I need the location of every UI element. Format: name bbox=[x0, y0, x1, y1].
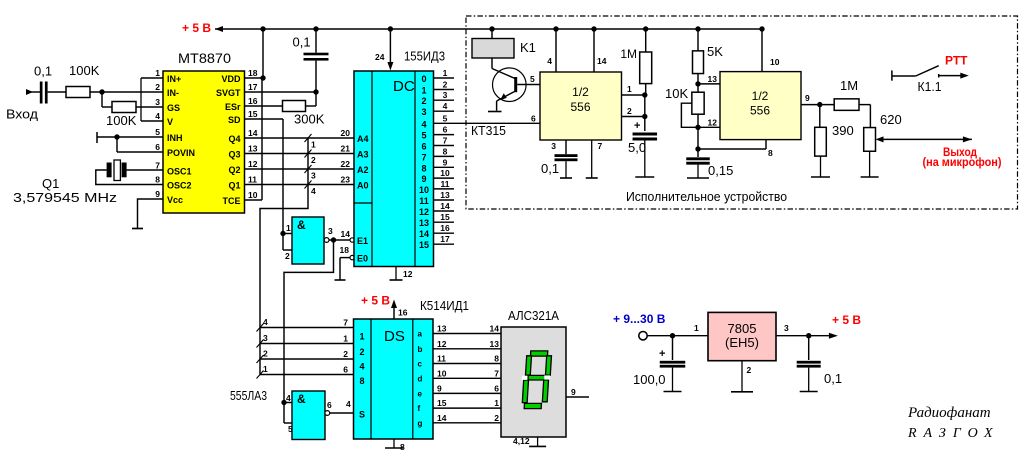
node pin1 1M bbox=[642, 92, 647, 97]
dashed boundary Исполнительное устройство bbox=[466, 16, 1018, 209]
svg-text:9: 9 bbox=[571, 387, 576, 397]
svg-text:9: 9 bbox=[805, 93, 810, 103]
svg-text:Vcc: Vcc bbox=[167, 195, 183, 205]
wire 556a pin1 bbox=[622, 84, 645, 95]
svg-text:4: 4 bbox=[346, 399, 351, 409]
svg-text:DC: DC bbox=[393, 78, 415, 95]
label 18 E0 pin bbox=[340, 245, 350, 255]
node 5K rail bbox=[695, 26, 700, 31]
ground emitter bbox=[488, 111, 502, 113]
wire input to 7805 bbox=[647, 323, 708, 336]
bus taps 1-4 DC side bbox=[305, 134, 317, 196]
output tap arrows bbox=[876, 136, 972, 142]
svg-text:6: 6 bbox=[443, 125, 448, 135]
svg-text:10: 10 bbox=[419, 185, 429, 195]
IC 155ИД3 body bbox=[354, 71, 434, 267]
capacitor 0,1 output bbox=[797, 336, 821, 392]
svg-text:А0: А0 bbox=[357, 181, 369, 191]
label 3,579545 MHz bbox=[13, 190, 117, 205]
label 0,1 556a bbox=[541, 161, 559, 176]
svg-text:Q4: Q4 bbox=[228, 134, 240, 144]
capacitor C 0,1 input bbox=[40, 82, 66, 104]
svg-text:5: 5 bbox=[155, 127, 160, 137]
svg-text:V: V bbox=[167, 117, 173, 127]
wire SD to gate inputs bbox=[283, 234, 292, 251]
svg-text:7: 7 bbox=[421, 152, 426, 162]
svg-text:А2: А2 bbox=[357, 165, 369, 175]
wire E0 to ground bbox=[340, 258, 350, 280]
svg-text:2: 2 bbox=[494, 413, 499, 423]
node 556a pin14 rail bbox=[591, 26, 596, 31]
label 7805 bbox=[725, 321, 759, 350]
svg-text:3: 3 bbox=[784, 323, 789, 333]
wire SD bbox=[245, 119, 284, 234]
svg-text:6: 6 bbox=[494, 383, 499, 393]
resistor 390 bbox=[811, 105, 830, 177]
transistor VT1 КТ315 bbox=[492, 58, 526, 111]
svg-text:555ЛА3: 555ЛА3 bbox=[230, 388, 267, 403]
svg-text:12: 12 bbox=[403, 269, 413, 279]
E0 inversion circle bbox=[350, 255, 354, 259]
7805 pin2 ground bbox=[731, 361, 753, 392]
svg-text:4: 4 bbox=[155, 111, 160, 121]
node out cap bbox=[806, 333, 811, 338]
label 1/2 556 first bbox=[570, 85, 590, 114]
svg-text:0,1: 0,1 bbox=[34, 64, 52, 79]
svg-text:100,0: 100,0 bbox=[633, 372, 666, 387]
svg-text:7: 7 bbox=[494, 368, 499, 378]
556a pin14 to rail bbox=[594, 29, 607, 72]
gate1 output inversion circle bbox=[324, 238, 329, 243]
display ground pins 4,12 bbox=[513, 436, 546, 446]
svg-text:GS: GS bbox=[167, 103, 180, 113]
wire gate2 out to S bbox=[330, 399, 354, 413]
svg-text:13: 13 bbox=[248, 144, 258, 154]
signature RA3TOX bbox=[907, 426, 1000, 441]
wire pin12 to pin8 bbox=[698, 127, 773, 158]
svg-text:7: 7 bbox=[155, 161, 160, 171]
svg-text:4: 4 bbox=[421, 119, 426, 129]
svg-text:S: S bbox=[359, 410, 365, 420]
svg-text:11: 11 bbox=[419, 196, 429, 206]
svg-text:0,1: 0,1 bbox=[824, 371, 842, 386]
wire gate2 inputs bbox=[284, 403, 292, 424]
svg-text:13: 13 bbox=[490, 339, 500, 349]
capacitor 100,0 polarized bbox=[659, 336, 685, 392]
display pin 9 stub bbox=[566, 387, 589, 397]
label DC bbox=[393, 78, 415, 95]
svg-text:6: 6 bbox=[155, 142, 160, 152]
svg-text:2: 2 bbox=[343, 349, 348, 359]
svg-text:Исполнительное устройство: Исполнительное устройство bbox=[626, 189, 787, 204]
svg-text:(на микрофон): (на микрофон) bbox=[923, 157, 1002, 169]
input terminal arrow (Вход) bbox=[26, 89, 40, 95]
svg-text:3: 3 bbox=[311, 171, 316, 181]
svg-text:300K: 300K bbox=[294, 112, 325, 127]
relay K1 coil bbox=[472, 29, 514, 58]
crystal Q1 3,579545 MHz bbox=[96, 160, 163, 185]
DC ground pin 12 bbox=[390, 267, 413, 281]
node pin24 rail bbox=[388, 26, 393, 31]
svg-text:22: 22 bbox=[341, 159, 351, 169]
svg-text:5: 5 bbox=[421, 131, 426, 141]
svg-text:0: 0 bbox=[421, 74, 426, 84]
svg-text:a: a bbox=[418, 330, 423, 339]
ground E0 bbox=[335, 279, 346, 281]
556a pin4 to rail bbox=[547, 29, 556, 72]
svg-text:1/2: 1/2 bbox=[752, 89, 769, 103]
wire Vss to ground bbox=[138, 199, 164, 228]
label 0,1 output bbox=[824, 371, 842, 386]
gate1 pin labels bbox=[285, 223, 333, 261]
svg-text:4: 4 bbox=[311, 186, 316, 196]
svg-text:SVGT: SVGT bbox=[216, 88, 241, 98]
wire SVGT node bbox=[245, 91, 317, 93]
DS ground pin 8 bbox=[385, 439, 405, 452]
wires DS to display with pin numbers bbox=[433, 324, 501, 423]
svg-text:0,15: 0,15 bbox=[708, 163, 733, 178]
svg-text:12: 12 bbox=[419, 207, 429, 217]
label 5K bbox=[707, 44, 723, 59]
wire IN+ to V tie bbox=[141, 78, 163, 121]
svg-text:556: 556 bbox=[750, 104, 770, 118]
svg-text:13: 13 bbox=[419, 218, 429, 228]
wire input to IN- bbox=[90, 91, 164, 93]
svg-text:18: 18 bbox=[248, 68, 258, 78]
svg-text:2: 2 bbox=[263, 349, 268, 359]
node pin9 bbox=[817, 102, 822, 107]
svg-text:VDD: VDD bbox=[221, 74, 241, 84]
MT8870 right pin numbers bbox=[248, 68, 258, 200]
capacitor 0,1 supply MT8870 bbox=[304, 29, 329, 92]
display АЛС321А body bbox=[501, 327, 566, 437]
ground MT8870 bbox=[132, 228, 143, 230]
svg-text:2: 2 bbox=[627, 106, 632, 116]
DS input weight names bbox=[359, 332, 365, 420]
DC input names A4-A0 bbox=[357, 134, 369, 191]
svg-text:7: 7 bbox=[343, 318, 348, 328]
svg-text:2: 2 bbox=[311, 155, 316, 165]
svg-text:3: 3 bbox=[155, 97, 160, 107]
svg-text:Q3: Q3 bbox=[228, 150, 240, 160]
wire pin1 to pin2 node bbox=[644, 95, 646, 117]
MT8870 left pin names bbox=[167, 74, 195, 205]
node SD gate input bbox=[280, 231, 285, 236]
wire 7805 out bbox=[776, 323, 838, 339]
svg-text:1: 1 bbox=[155, 68, 160, 78]
label 100K R1 bbox=[69, 63, 100, 78]
svg-text:2: 2 bbox=[443, 80, 448, 90]
svg-text:SD: SD bbox=[228, 115, 241, 125]
svg-text:КТ315: КТ315 bbox=[471, 123, 506, 138]
svg-text:13: 13 bbox=[437, 324, 447, 334]
svg-text:12: 12 bbox=[437, 339, 447, 349]
svg-text:2: 2 bbox=[155, 82, 160, 92]
label Выход bbox=[943, 145, 977, 159]
svg-text:5: 5 bbox=[443, 113, 448, 123]
svg-text:10: 10 bbox=[770, 57, 780, 67]
svg-text:8: 8 bbox=[768, 148, 773, 158]
7-segment digit 8 bbox=[522, 351, 552, 409]
svg-text:6: 6 bbox=[531, 114, 536, 124]
wire base to pin5 bbox=[517, 74, 540, 85]
node E1 bbox=[331, 237, 336, 242]
svg-text:23: 23 bbox=[341, 175, 351, 185]
DS left pin numbers bbox=[343, 318, 348, 375]
label +5 В DS bbox=[361, 294, 390, 308]
label 300K bbox=[294, 112, 325, 127]
svg-text:b: b bbox=[418, 345, 423, 354]
svg-text:IN+: IN+ bbox=[167, 74, 181, 84]
svg-text:1М: 1М bbox=[620, 47, 637, 61]
svg-text:&: & bbox=[297, 218, 306, 232]
svg-text:E0: E0 bbox=[357, 254, 368, 264]
svg-text:6: 6 bbox=[327, 400, 332, 410]
label 0,1 supply cap bbox=[293, 35, 311, 50]
svg-text:17: 17 bbox=[440, 234, 450, 244]
svg-text:e: e bbox=[418, 389, 423, 398]
svg-text:155ИД3: 155ИД3 bbox=[404, 49, 445, 64]
svg-text:RАЗГОХ: RАЗГОХ bbox=[907, 426, 1000, 441]
gate2 output inversion circle bbox=[325, 411, 330, 416]
label 14 E1 pin bbox=[341, 229, 351, 239]
svg-text:f: f bbox=[418, 404, 421, 413]
signature Радиофанат bbox=[907, 405, 991, 421]
svg-text:1: 1 bbox=[421, 86, 426, 96]
svg-text:390: 390 bbox=[832, 123, 854, 138]
svg-text:8: 8 bbox=[494, 354, 499, 364]
node pin2 cap bbox=[642, 114, 647, 119]
svg-text:2: 2 bbox=[421, 96, 426, 106]
556a pin7 ground bbox=[586, 140, 603, 178]
svg-text:3: 3 bbox=[263, 333, 268, 343]
svg-text:5K: 5K bbox=[707, 44, 723, 59]
node 556a pin4 rail bbox=[553, 26, 558, 31]
svg-text:7: 7 bbox=[443, 136, 448, 146]
MT8870 left pin numbers bbox=[155, 68, 160, 199]
svg-text:20: 20 bbox=[341, 128, 351, 138]
node INH-POVIN junction bbox=[114, 134, 163, 152]
label 10K bbox=[665, 86, 688, 101]
IC MT8870 body bbox=[163, 71, 245, 213]
svg-text:14: 14 bbox=[419, 229, 429, 239]
wire gate1 out to E1 bbox=[329, 239, 350, 241]
label К1.1 bbox=[918, 80, 942, 94]
svg-text:10: 10 bbox=[437, 368, 447, 378]
svg-text:6: 6 bbox=[421, 142, 426, 152]
svg-text:3: 3 bbox=[328, 226, 333, 236]
gate DD1.1 & body bbox=[292, 217, 324, 264]
wire E1 to gate2 inputs bbox=[284, 240, 334, 403]
node 0,15 junction bbox=[695, 146, 700, 151]
label Вход bbox=[6, 107, 38, 122]
node 1M rail bbox=[643, 26, 648, 31]
bus fan-out to DS inputs bbox=[257, 317, 354, 379]
svg-text:+: + bbox=[659, 348, 665, 360]
gate2 pin labels bbox=[286, 393, 332, 434]
svg-text:15: 15 bbox=[419, 240, 429, 250]
svg-text:556: 556 bbox=[570, 100, 590, 114]
svg-text:14: 14 bbox=[437, 413, 447, 423]
svg-text:Вход: Вход bbox=[6, 107, 38, 122]
wire VDD to rail bbox=[245, 29, 264, 78]
svg-text:K1: K1 bbox=[520, 40, 536, 55]
node pin12 bbox=[695, 125, 700, 130]
node 100uF junction bbox=[670, 333, 675, 338]
svg-text:А4: А4 bbox=[357, 134, 369, 144]
svg-text:16: 16 bbox=[440, 223, 450, 233]
svg-text:14: 14 bbox=[490, 324, 500, 334]
svg-text:8: 8 bbox=[359, 376, 364, 386]
label Исполнительное устройство bbox=[626, 189, 787, 204]
svg-text:4: 4 bbox=[359, 362, 364, 372]
svg-text:5,0: 5,0 bbox=[628, 140, 646, 155]
DC enable names bbox=[357, 236, 368, 264]
svg-text:7: 7 bbox=[598, 141, 603, 151]
svg-text:1М: 1М bbox=[840, 78, 858, 93]
svg-text:А3: А3 bbox=[357, 150, 369, 160]
label +9...30 В bbox=[613, 312, 666, 326]
svg-text:1: 1 bbox=[286, 223, 291, 233]
DS segment output names a-g bbox=[418, 330, 423, 428]
capacitor 0,15 bbox=[686, 149, 710, 178]
label MT8870 bbox=[178, 50, 231, 66]
svg-text:DS: DS bbox=[384, 328, 405, 345]
svg-text:2: 2 bbox=[359, 347, 364, 357]
transistor emitter arrow bbox=[500, 93, 507, 100]
svg-text:8: 8 bbox=[155, 175, 160, 185]
bus wires Q4-Q1 to A inputs bbox=[245, 138, 355, 185]
svg-text:14: 14 bbox=[597, 56, 607, 66]
svg-text:16: 16 bbox=[398, 308, 408, 318]
svg-text:g: g bbox=[418, 419, 423, 428]
svg-text:13: 13 bbox=[708, 74, 718, 84]
svg-text:18: 18 bbox=[340, 245, 350, 255]
wire 556b pin13 bbox=[698, 74, 720, 84]
svg-text:1: 1 bbox=[311, 140, 316, 150]
svg-text:3: 3 bbox=[443, 90, 448, 100]
label Q1 bbox=[42, 176, 59, 191]
svg-text:0,1: 0,1 bbox=[293, 35, 311, 50]
label 100,0 bbox=[633, 372, 666, 387]
label 1M first bbox=[620, 47, 637, 61]
label АЛС321А bbox=[508, 308, 559, 323]
label DS bbox=[384, 328, 405, 345]
svg-text:14: 14 bbox=[248, 128, 258, 138]
DC left pin numbers 20-23 bbox=[341, 128, 351, 185]
svg-text:OSC2: OSC2 bbox=[167, 181, 192, 191]
svg-text:9: 9 bbox=[443, 157, 448, 167]
svg-text:11: 11 bbox=[248, 175, 257, 185]
wire 556a pin2 bbox=[622, 106, 645, 117]
label +5 В output bbox=[832, 313, 861, 327]
svg-text:Радиофанат: Радиофанат bbox=[907, 405, 991, 421]
label на микрофон bbox=[923, 157, 1002, 169]
svg-text:14: 14 bbox=[341, 229, 351, 239]
resistor 1M second bbox=[834, 99, 870, 128]
node gate2 input bbox=[281, 400, 286, 405]
wire 556b pin9 bbox=[801, 93, 834, 105]
label 620 bbox=[880, 112, 902, 127]
svg-text:9: 9 bbox=[421, 174, 426, 184]
svg-text:1: 1 bbox=[694, 323, 699, 333]
node VDD rail bbox=[260, 26, 265, 80]
svg-text:3: 3 bbox=[421, 107, 426, 117]
label 1M second bbox=[840, 78, 858, 93]
trimmer 620 bbox=[861, 128, 879, 177]
wire pin24 to rail bbox=[387, 29, 393, 71]
resistor R2 100K feedback bbox=[102, 92, 163, 113]
svg-text:0,1: 0,1 bbox=[541, 161, 559, 176]
svg-text:+ 5 В: + 5 В bbox=[182, 21, 211, 35]
svg-text:+ 5 В: + 5 В bbox=[832, 313, 861, 327]
svg-text:MT8870: MT8870 bbox=[178, 50, 231, 66]
resistor R1 100K bbox=[66, 87, 90, 98]
svg-text:12: 12 bbox=[708, 118, 718, 128]
svg-text:c: c bbox=[418, 360, 423, 369]
IC 7805 body bbox=[708, 312, 776, 360]
node pin13 bbox=[695, 81, 700, 86]
capacitor 5,0 polarized bbox=[633, 117, 658, 178]
trimmer 10K bbox=[681, 84, 704, 127]
556b pin10 to rail bbox=[762, 29, 780, 72]
label 0,15 bbox=[708, 163, 733, 178]
svg-text:+: + bbox=[634, 120, 640, 132]
IC 556 second half body bbox=[720, 72, 801, 140]
IC 556 first half body bbox=[540, 72, 622, 140]
svg-text:d: d bbox=[418, 374, 423, 383]
svg-text:OSC1: OSC1 bbox=[167, 167, 192, 177]
svg-text:17: 17 bbox=[248, 82, 258, 92]
svg-text:14: 14 bbox=[440, 201, 450, 211]
DC output stubs and numbers bbox=[434, 68, 541, 244]
node cap rail bbox=[313, 26, 318, 31]
input terminal circle bbox=[639, 332, 647, 340]
svg-text:8: 8 bbox=[400, 442, 405, 452]
svg-text:TCE: TCE bbox=[223, 196, 241, 206]
svg-text:13: 13 bbox=[440, 190, 450, 200]
svg-text:1: 1 bbox=[494, 398, 499, 408]
svg-text:5: 5 bbox=[288, 424, 293, 434]
svg-text:9: 9 bbox=[155, 189, 160, 199]
svg-text:4: 4 bbox=[547, 56, 552, 66]
label 390 bbox=[832, 123, 854, 138]
svg-text:1: 1 bbox=[443, 68, 448, 78]
svg-text:4: 4 bbox=[286, 393, 291, 403]
svg-text:12: 12 bbox=[248, 159, 258, 169]
svg-text:РТТ: РТТ bbox=[945, 54, 968, 68]
svg-text:3: 3 bbox=[551, 141, 556, 151]
svg-text:Q1: Q1 bbox=[228, 181, 240, 191]
wire TCE to VDD bbox=[245, 78, 263, 200]
switch K1.1 PTT bbox=[892, 66, 969, 81]
svg-text:5: 5 bbox=[530, 74, 535, 84]
label +5 В rail bbox=[182, 21, 211, 35]
resistor 5K bbox=[693, 29, 704, 84]
svg-text:E1: E1 bbox=[357, 236, 368, 246]
label 555ЛА3 bbox=[230, 388, 267, 403]
wire DC out5 to pin6 trigger bbox=[531, 114, 536, 124]
svg-text:+ 5 В: + 5 В bbox=[361, 294, 390, 308]
svg-text:POVIN: POVIN bbox=[167, 148, 195, 158]
svg-text:10K: 10K bbox=[665, 86, 688, 101]
node SVGT bbox=[313, 89, 318, 94]
resistor 1M first bbox=[640, 29, 652, 95]
label 155ИД3 bbox=[404, 49, 445, 64]
svg-text:1: 1 bbox=[343, 334, 348, 344]
resistor 300K bbox=[245, 92, 317, 112]
svg-text:100K: 100K bbox=[106, 113, 137, 128]
